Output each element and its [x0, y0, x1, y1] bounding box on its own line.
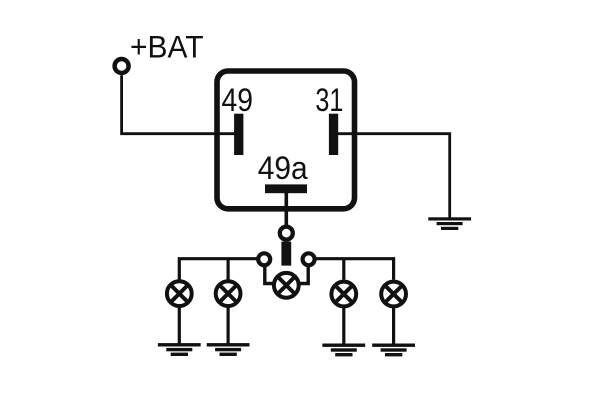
lamp L2: [216, 281, 241, 306]
wire left lamp bus: [179, 259, 256, 280]
lamp L5 indicator: [274, 273, 299, 298]
ground GND1: [158, 343, 201, 356]
ground GND2: [207, 343, 250, 356]
wire right contact to indicator lamp: [300, 266, 308, 284]
terminal +BAT: [115, 59, 129, 73]
contact left: [258, 253, 270, 265]
pin 31: [329, 114, 338, 155]
pin 49a: [265, 184, 307, 193]
ground GND4: [372, 344, 415, 357]
contact right: [303, 253, 315, 265]
switch lever S1: [281, 242, 291, 266]
lamp L3: [331, 282, 356, 307]
ground GND5 (pin 31): [428, 217, 471, 230]
svg-text:+BAT: +BAT: [130, 29, 204, 65]
wire stem lamp L2: [227, 259, 230, 280]
wire lamp L1 to ground: [178, 307, 181, 343]
pin 49: [234, 114, 243, 155]
wire 49a to pivot node: [284, 193, 288, 226]
svg-text:49a: 49a: [258, 150, 309, 186]
relay box U1: [217, 71, 355, 209]
lamp L4: [381, 282, 406, 307]
svg-text:31: 31: [315, 82, 343, 118]
wire stem lamp L3: [342, 259, 345, 280]
node pivot: [280, 227, 293, 240]
lamp L1: [167, 281, 192, 306]
wire lamp L2 to ground: [227, 307, 230, 343]
wire right lamp bus: [316, 259, 393, 280]
ground GND3: [322, 344, 365, 357]
wire left contact to indicator lamp: [265, 266, 273, 284]
svg-text:49: 49: [222, 82, 254, 118]
wire lamp L4 to ground: [392, 308, 395, 344]
wire lamp L3 to ground: [342, 308, 345, 344]
wire pin 31 to ground: [338, 134, 450, 218]
wire +BAT to pin 49: [122, 75, 235, 134]
